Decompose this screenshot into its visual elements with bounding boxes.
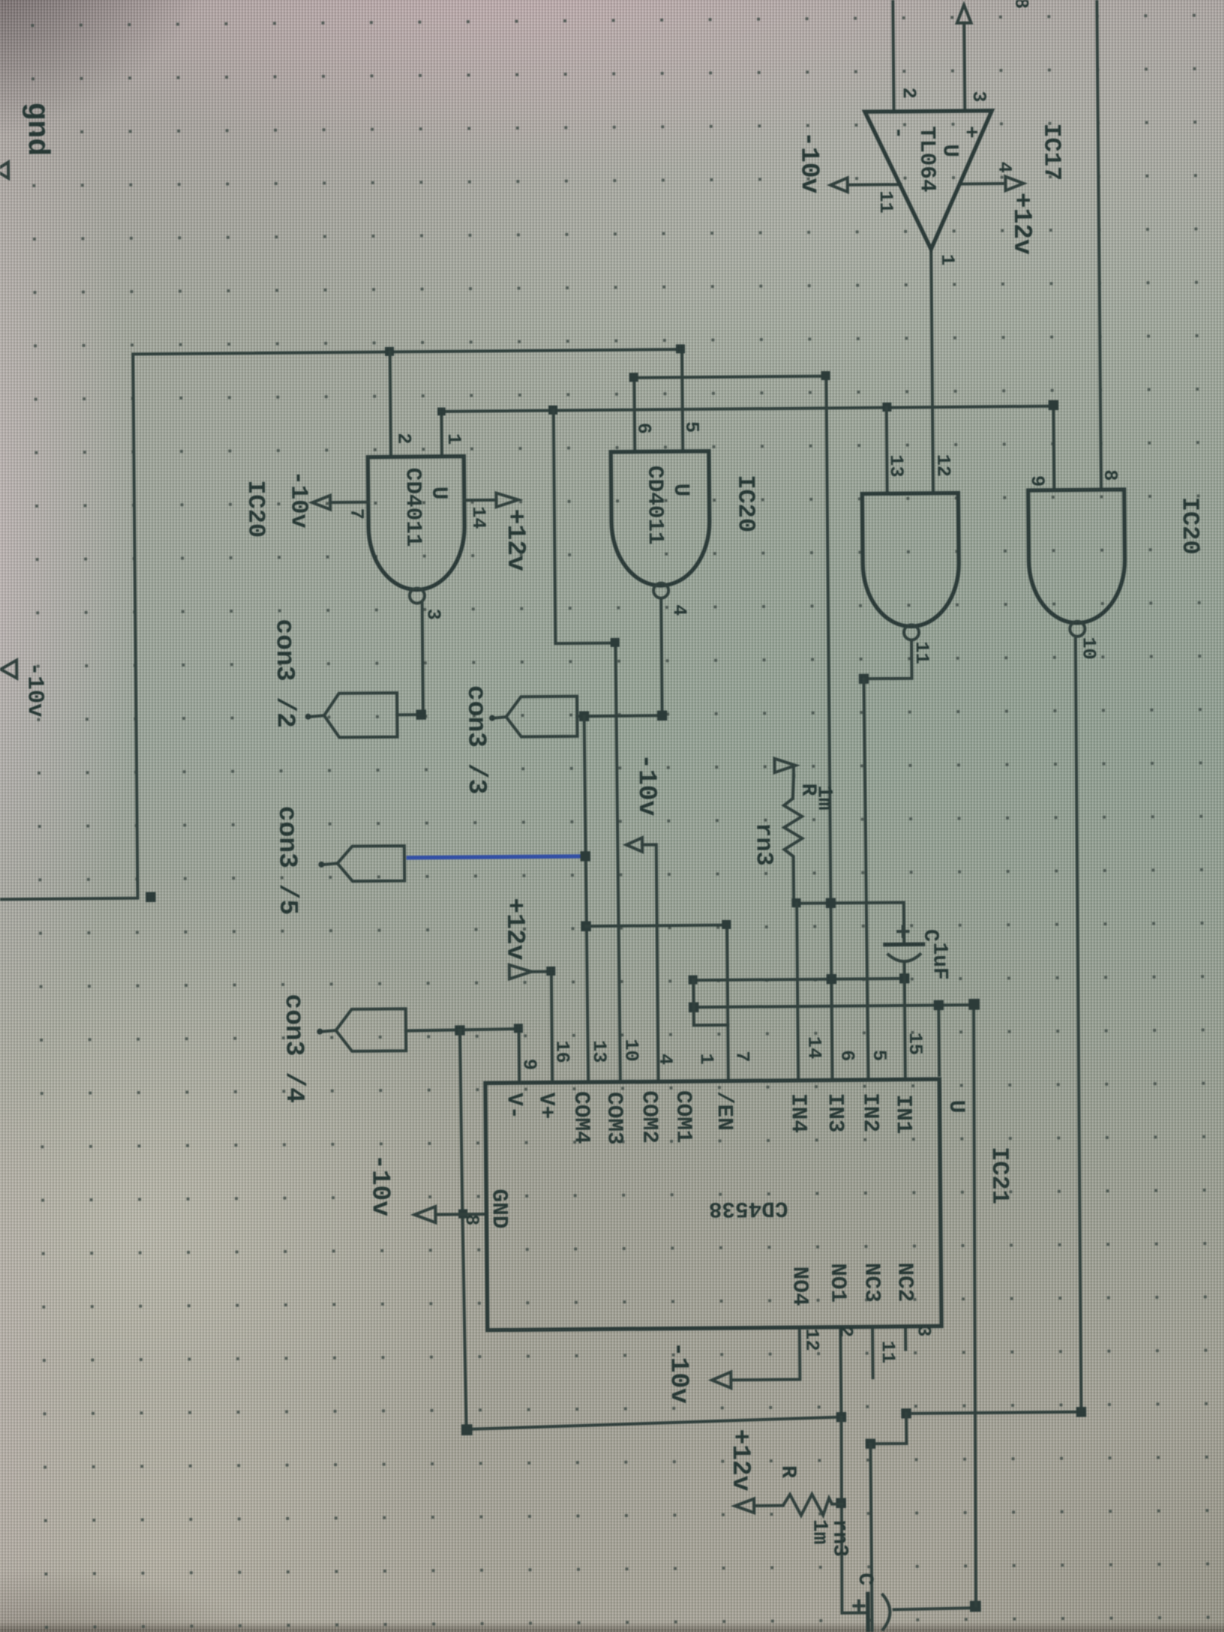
svg-text:7: 7 xyxy=(345,508,367,520)
svg-text:NC2: NC2 xyxy=(892,1262,917,1302)
wire net gate-B pin6 to big vertical xyxy=(634,376,832,1080)
svg-text:CD4011: CD4011 xyxy=(400,468,426,547)
wire +12v stub to pin16 xyxy=(531,972,552,1081)
svg-text:GND: GND xyxy=(486,1189,511,1229)
svg-text:4: 4 xyxy=(668,604,690,616)
junction pin9 corner xyxy=(514,1024,523,1033)
capacitor C (bottom) plate1 xyxy=(866,1594,870,1631)
power +12v arrow at rn3 top xyxy=(775,758,796,772)
power -10v arrow at pin4 net xyxy=(626,838,642,852)
junction gnd rail / pin8 stub xyxy=(458,1209,467,1218)
wire net gA2/gB5 feedback top rail xyxy=(0,349,685,899)
svg-text:1: 1 xyxy=(936,254,958,266)
wire cap C1uF stem to pin5 xyxy=(903,963,907,1077)
svg-text:COM4: COM4 xyxy=(568,1091,593,1144)
power +12v arrow at pin16 xyxy=(509,965,531,979)
wire op-amp pin11 V- stub xyxy=(848,183,901,186)
junction pin13 top xyxy=(882,403,891,412)
svg-text:12: 12 xyxy=(800,1328,822,1351)
junction pin10 top corner xyxy=(610,638,619,647)
wire row981 drop to row1008 xyxy=(692,980,695,1007)
svg-text:NC3: NC3 xyxy=(859,1263,884,1303)
NAND gate IC20D bubble xyxy=(1070,621,1085,636)
junction gate B out xyxy=(657,711,667,721)
svg-text:14: 14 xyxy=(803,1036,825,1059)
power -10v arrow at gate A pin7 xyxy=(312,495,330,509)
wire NO1 node down to R and cap xyxy=(840,1417,868,1613)
NAND gate IC20B bubble xyxy=(653,583,668,598)
junction jog 2 xyxy=(865,1439,875,1449)
svg-text:+12v: +12v xyxy=(725,1429,756,1492)
svg-text:-10v: -10v xyxy=(664,1341,695,1404)
wire gate D output 10 long xyxy=(899,639,1082,1414)
svg-text:2: 2 xyxy=(898,87,920,99)
wire gnd rail vertical xyxy=(460,1027,841,1429)
svg-text:R: R xyxy=(776,1465,799,1478)
NAND gate IC20C body xyxy=(862,493,959,627)
junction com4 row left xyxy=(581,921,591,931)
svg-text:1m: 1m xyxy=(807,1519,830,1544)
svg-text:8: 8 xyxy=(460,1214,482,1226)
junction con3-3 node xyxy=(579,711,589,721)
svg-text:3: 3 xyxy=(422,608,444,620)
svg-text:U: U xyxy=(943,1100,968,1113)
svg-text:8: 8 xyxy=(1010,0,1032,9)
wire gate A pin2 xyxy=(388,352,392,457)
svg-text:4: 4 xyxy=(654,1053,676,1065)
svg-text:CD4538: CD4538 xyxy=(709,1195,788,1221)
wire row y926 to pin1 xyxy=(586,925,728,1080)
junction resistor rn3 node xyxy=(836,1498,846,1508)
junction +12v pin16 corner xyxy=(546,967,555,976)
wire con3/4 row to pin9 xyxy=(406,1029,519,1082)
wire op-amp pin2 from screen edge xyxy=(891,0,895,112)
power -10v arrow at pin8 GND xyxy=(414,1207,435,1223)
junction row905 pin7 xyxy=(792,898,801,907)
svg-text:-10v: -10v xyxy=(631,754,662,817)
svg-text:U: U xyxy=(937,144,962,157)
resistor R rn3 1m (bottom) zigzag xyxy=(783,1494,832,1515)
wire gate A pin14 stub xyxy=(464,498,496,501)
svg-text:CD4011: CD4011 xyxy=(642,466,668,545)
connector con3/5 pentagon xyxy=(337,846,404,882)
wire gate B pin5 xyxy=(680,349,684,451)
svg-text:IC20: IC20 xyxy=(731,475,759,533)
wire pin10 long vertical xyxy=(615,643,620,1080)
junction row926 pin1 corner xyxy=(722,920,731,929)
wire gate A output 3 xyxy=(421,604,425,715)
wire stub down from row1008 xyxy=(694,1007,728,1025)
wire row981 cap stem to big vertical xyxy=(693,978,904,980)
svg-text:IC21: IC21 xyxy=(985,1147,1013,1205)
wire jog down xyxy=(870,1413,906,1443)
op-amp U IC17 TL064 triangle xyxy=(865,111,993,250)
wire gate C pin13 xyxy=(885,408,889,494)
svg-text:13: 13 xyxy=(885,454,907,477)
wire vertical con3-3 node down to pin13 xyxy=(584,716,588,1080)
capacitor C 1uF (mid right) plate1 xyxy=(885,942,923,946)
wire pin8 GND stub xyxy=(435,1213,486,1216)
junction con3-4 / gnd rail xyxy=(455,1025,465,1035)
svg-text:-: - xyxy=(886,126,909,139)
svg-text:11: 11 xyxy=(877,1341,899,1364)
wire blue selected net con3/5 xyxy=(406,856,585,858)
wire -10v stub to pin4 xyxy=(642,845,658,1080)
wire gate D pin8 long line from screen edge xyxy=(1097,0,1101,490)
junction feedback corner bottom-left xyxy=(146,892,156,902)
wire op-amp pin3 stub xyxy=(963,23,967,111)
svg-text:NO4: NO4 xyxy=(787,1266,812,1306)
NAND gate IC20B body xyxy=(611,451,710,586)
connector con3/2 pentagon xyxy=(324,693,397,738)
svg-text:16: 16 xyxy=(551,1040,573,1063)
wire exit bottom edge xyxy=(870,1444,872,1632)
connector con3/5 tail xyxy=(324,863,337,864)
svg-text:V-: V- xyxy=(501,1093,526,1120)
svg-text:2: 2 xyxy=(834,1326,856,1338)
svg-text:11: 11 xyxy=(910,641,932,664)
wire cap right plate to riser xyxy=(894,1608,975,1610)
junction NO1 node xyxy=(836,1412,846,1422)
svg-text:IN4: IN4 xyxy=(785,1093,810,1133)
power -10v arrow at pin12 NO4 xyxy=(712,1372,731,1388)
junction gate A out / con3-2 xyxy=(416,710,426,720)
wire op-amp output 1 to gate C pin12 xyxy=(931,249,933,493)
svg-text:6: 6 xyxy=(633,423,655,435)
wire op-amp pin4 V+ stub xyxy=(959,182,1005,185)
svg-text:-10v: -10v xyxy=(794,131,825,194)
resistor R rn3 1m (top right) zigzag xyxy=(784,798,803,862)
svg-text:IN3: IN3 xyxy=(822,1093,847,1133)
wire output4 row to con3/3 xyxy=(577,714,662,718)
wire pin11 NC3 stub xyxy=(871,1327,874,1378)
wire pin7 vertical xyxy=(797,903,799,1078)
junction riser top corner xyxy=(969,999,980,1010)
svg-text:-10v: -10v xyxy=(365,1154,396,1217)
wire rn3 top arrow stem xyxy=(792,765,795,776)
connector con3/4 pentagon xyxy=(336,1009,406,1052)
junction row905 big vertical xyxy=(826,898,836,908)
svg-text:-10v: -10v xyxy=(22,662,48,718)
wire gate A pin7 stub xyxy=(330,501,368,504)
wire gate B output 4 xyxy=(661,599,662,716)
capacitor C 1uF polarity plus xyxy=(898,926,908,936)
wire riser up the right of IC21 xyxy=(694,1005,979,1608)
svg-text:9: 9 xyxy=(1026,475,1048,487)
junction pin15 row1008 xyxy=(934,1000,944,1010)
svg-text:+: + xyxy=(958,126,981,139)
wire resistor bottom to row905 xyxy=(793,861,904,944)
power +12v arrow at gate A pin14 xyxy=(496,493,518,507)
svg-text:10: 10 xyxy=(620,1039,642,1062)
junction cap riser corner xyxy=(970,1601,981,1612)
svg-text:13: 13 xyxy=(588,1040,610,1063)
junction feedback/gate-A-pin2 xyxy=(385,347,394,356)
svg-text:rn3: rn3 xyxy=(749,823,776,866)
junction gate D out route 1 xyxy=(901,1408,911,1418)
wire pin2 NO1 stub xyxy=(839,1327,843,1417)
power +12v arrow at rn3 bottom xyxy=(735,1499,754,1513)
svg-text:IN2: IN2 xyxy=(857,1093,882,1133)
wire gate C out down to pin6 xyxy=(864,679,868,1078)
svg-text:7: 7 xyxy=(731,1051,753,1063)
wire resistor rn3 top +12v stem xyxy=(793,775,794,798)
svg-text:COM2: COM2 xyxy=(636,1091,661,1144)
svg-text:-10v: -10v xyxy=(284,471,312,529)
wire gate C output 11 xyxy=(863,640,911,678)
connector con3/2 tail xyxy=(311,716,324,717)
svg-text:U: U xyxy=(668,483,693,496)
IC21 CD4538 body xyxy=(485,1079,941,1330)
svg-text:3: 3 xyxy=(912,1325,934,1337)
svg-text:C: C xyxy=(853,1573,876,1586)
power arrow at op-amp pin3 (screen edge) xyxy=(957,5,971,23)
svg-text:10: 10 xyxy=(1077,637,1099,660)
capacitor C (bottom) polarity plus xyxy=(854,1601,864,1611)
junction blue wire right end xyxy=(580,851,590,861)
wire pin15 stub xyxy=(937,1005,941,1075)
svg-text:1: 1 xyxy=(443,433,465,445)
capacitor C 1uF curved plate xyxy=(887,953,921,961)
NAND gate IC20A body xyxy=(368,456,465,590)
NAND gate IC20A bubble xyxy=(410,588,425,603)
junction row981 cap stem xyxy=(899,973,909,983)
NAND gate IC20D body xyxy=(1028,490,1125,624)
junction feedback/gate-B-pin5 corner xyxy=(676,344,685,353)
junction row981 left xyxy=(688,975,697,984)
svg-text:+12v: +12v xyxy=(1007,192,1038,255)
junction gate B pin6 xyxy=(629,373,638,382)
svg-text:2: 2 xyxy=(393,433,415,445)
svg-text:12: 12 xyxy=(932,454,954,477)
junction gnd rail bottom corner xyxy=(461,1424,472,1435)
wire long horizontal net gA1/pin13/pin9 xyxy=(441,406,1054,495)
svg-text:V+: V+ xyxy=(533,1092,558,1119)
svg-text:+12v: +12v xyxy=(500,898,531,961)
power +12v arrow at op-amp pin4 xyxy=(1005,176,1023,190)
svg-text:COM3: COM3 xyxy=(601,1092,626,1145)
power arrow fragment at screen edge (bottom-left of landscape) xyxy=(0,162,8,178)
junction net to con3 column xyxy=(548,405,557,414)
svg-text:con3 /4: con3 /4 xyxy=(279,994,310,1103)
svg-text:con3 /2: con3 /2 xyxy=(269,619,300,728)
svg-text:gnd: gnd xyxy=(19,102,53,156)
svg-text:11: 11 xyxy=(875,190,897,213)
svg-text:/EN: /EN xyxy=(711,1091,736,1131)
power -10v arrow at screen corner xyxy=(1,660,17,678)
svg-text:NO1: NO1 xyxy=(825,1263,850,1303)
svg-text:IC20: IC20 xyxy=(1175,497,1203,555)
wire pin3 NC2 stub xyxy=(904,1326,907,1349)
svg-text:14: 14 xyxy=(467,506,489,529)
svg-text:C: C xyxy=(918,929,941,942)
power -10v arrow at op-amp pin11 xyxy=(830,178,847,192)
junction row1008 left corner xyxy=(689,1002,699,1012)
svg-text:9: 9 xyxy=(518,1059,540,1071)
svg-text:U: U xyxy=(426,486,451,499)
connector con3/4 tail xyxy=(323,1030,336,1031)
svg-text:con3 /3: con3 /3 xyxy=(461,685,492,794)
capacitor C (bottom) curved plate xyxy=(882,1594,890,1631)
svg-text:5: 5 xyxy=(868,1050,890,1062)
svg-text:+12v: +12v xyxy=(500,509,531,572)
svg-text:TL064: TL064 xyxy=(914,126,940,192)
svg-text:IN1: IN1 xyxy=(890,1094,915,1134)
svg-text:COM1: COM1 xyxy=(670,1090,695,1143)
junction gate C out corner xyxy=(859,674,869,684)
connector con3/3 tail xyxy=(495,717,506,718)
svg-text:1uF: 1uF xyxy=(927,942,950,980)
svg-text:4: 4 xyxy=(993,161,1015,173)
svg-text:8: 8 xyxy=(1099,470,1121,482)
junction big vertical corner xyxy=(821,371,830,380)
wire bottom +12v to resistor rn3b xyxy=(754,1504,783,1507)
junction pin9 corner xyxy=(1048,400,1058,410)
svg-text:3: 3 xyxy=(968,91,990,103)
svg-text:6: 6 xyxy=(836,1050,858,1062)
wire rn3b right end to node xyxy=(832,1503,842,1506)
NAND gate IC20C bubble xyxy=(904,625,919,640)
wire down from long net to gate outputs row xyxy=(553,410,614,644)
connector con3/3 pentagon xyxy=(506,696,577,737)
junction gA1 corner xyxy=(437,407,445,415)
svg-text:IC20: IC20 xyxy=(241,480,269,538)
wire pin12 NO4 stub xyxy=(730,1327,799,1380)
svg-text:1m: 1m xyxy=(812,785,835,810)
wire con3/2 to gate A out xyxy=(397,713,423,716)
svg-text:15: 15 xyxy=(904,1032,926,1055)
junction row981 big vertical xyxy=(826,974,836,984)
svg-text:1: 1 xyxy=(695,1053,717,1065)
svg-text:con3 /5: con3 /5 xyxy=(272,806,303,915)
svg-text:5: 5 xyxy=(681,421,703,433)
junction gate D out corner xyxy=(1076,1407,1086,1417)
svg-text:IC17: IC17 xyxy=(1037,123,1065,181)
